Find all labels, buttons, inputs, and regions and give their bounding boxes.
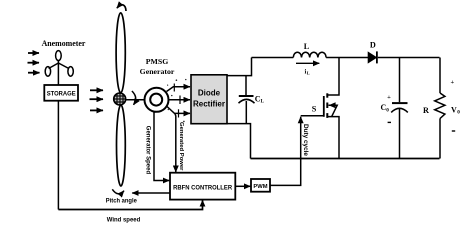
STORAGE box bbox=[44, 85, 78, 101]
pitch angle wire bbox=[132, 192, 170, 194]
generated power wire bbox=[174, 114, 177, 172]
svg-text:+: + bbox=[450, 79, 454, 86]
turbine hub bbox=[114, 93, 126, 105]
rotation arrow top bbox=[117, 5, 126, 11]
svg-text:Generator: Generator bbox=[140, 67, 175, 76]
wire bottom bus bbox=[251, 158, 440, 160]
diode rectifier box U1 bbox=[191, 75, 227, 124]
svg-text:Anemometer: Anemometer bbox=[42, 39, 86, 48]
shaft bbox=[126, 99, 144, 101]
svg-text:RBFN CONTROLLER: RBFN CONTROLLER bbox=[173, 184, 232, 191]
wire diode to output bbox=[378, 57, 440, 59]
rotation arrow at hub bbox=[132, 91, 136, 105]
svg-text:Wind speed: Wind speed bbox=[107, 217, 141, 224]
label PMSG Generator bbox=[140, 57, 175, 76]
svg-text:R: R bbox=[423, 106, 429, 115]
svg-text:S: S bbox=[312, 105, 317, 114]
mosfet gate wire bbox=[301, 115, 324, 117]
svg-text:Generator Speed: Generator Speed bbox=[145, 126, 151, 175]
capacitor C0 bbox=[381, 58, 408, 159]
generator circles bbox=[145, 88, 169, 112]
stray dots bbox=[167, 79, 187, 122]
inductor L bbox=[293, 42, 326, 58]
wind arrows left of anemometer bbox=[28, 53, 40, 73]
wire top bus bbox=[252, 57, 294, 59]
anemometer cups bbox=[45, 51, 73, 85]
iL arrow bbox=[296, 63, 319, 75]
svg-text:+: + bbox=[387, 94, 391, 101]
svg-text:Generated Power: Generated Power bbox=[178, 122, 184, 171]
svg-text:PMSG: PMSG bbox=[146, 57, 169, 66]
svg-text:L: L bbox=[261, 99, 265, 105]
svg-text:V: V bbox=[451, 106, 457, 115]
svg-text:L: L bbox=[307, 70, 310, 75]
phase line a bbox=[167, 84, 191, 92]
svg-text:L: L bbox=[304, 42, 310, 51]
svg-text:Diode: Diode bbox=[198, 89, 221, 98]
turbine blade upper bbox=[116, 13, 125, 93]
wire rectifier top stub bbox=[227, 58, 252, 76]
wire rectifier bottom stub bbox=[227, 124, 251, 159]
svg-text:D: D bbox=[370, 41, 376, 50]
svg-text:Duty cycle: Duty cycle bbox=[302, 124, 309, 156]
svg-text:Rectifier: Rectifier bbox=[193, 99, 225, 108]
resistor R bbox=[423, 58, 460, 159]
phase line c bbox=[167, 106, 191, 118]
wind arrows into turbine bbox=[90, 90, 104, 110]
anemometer pole bbox=[57, 101, 59, 210]
RBFN controller box bbox=[170, 173, 235, 200]
duty cycle wire bbox=[270, 117, 301, 186]
wind speed wire bbox=[58, 200, 202, 209]
mosfet S bbox=[312, 58, 339, 159]
pitch angle arc bbox=[112, 189, 124, 194]
wire inductor to diode bbox=[326, 57, 368, 59]
capacitor CL bbox=[239, 76, 265, 124]
svg-text:0: 0 bbox=[457, 110, 460, 116]
phase line b bbox=[169, 96, 190, 105]
svg-text:STORAGE: STORAGE bbox=[47, 91, 77, 98]
wire RBFN to PWM bbox=[235, 185, 250, 187]
svg-text:Pitch angle: Pitch angle bbox=[106, 198, 137, 205]
turbine blade lower bbox=[117, 105, 126, 186]
PWM box bbox=[251, 179, 270, 192]
diode D bbox=[368, 41, 377, 64]
generator speed wire bbox=[154, 112, 169, 181]
svg-text:0: 0 bbox=[386, 107, 389, 113]
svg-text:PWM: PWM bbox=[253, 184, 267, 190]
